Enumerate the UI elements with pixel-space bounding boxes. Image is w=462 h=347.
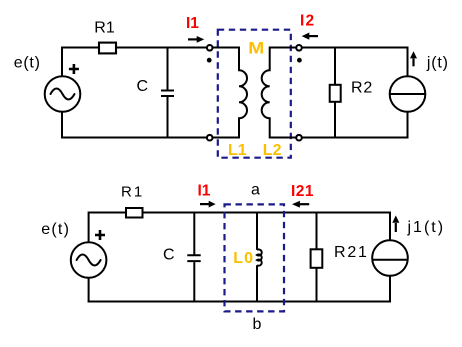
plus sign of e(t) <box>69 64 79 74</box>
resistor R2 branch lower wire <box>334 102 336 139</box>
wire R1 to j1(t) top (through all junctions) <box>143 212 391 214</box>
current source j1(t) lower wire <box>389 276 391 303</box>
resistor R1 <box>126 208 143 218</box>
current source j(t) circle <box>390 76 426 112</box>
current source j1(t) upper wire <box>389 212 391 241</box>
wire top-left horizontal (source to R1) <box>62 47 98 49</box>
resistor R21 <box>311 249 323 267</box>
polarity dot left <box>207 58 212 63</box>
voltage source e(t) sine wave <box>77 255 101 266</box>
wire right terminal to j(t) top <box>302 47 409 49</box>
capacitor C plates <box>161 91 174 97</box>
wire bottom horizontal <box>88 301 390 303</box>
current arrow I21 <box>297 203 309 205</box>
voltage source e(t) sine wave <box>51 89 75 100</box>
capacitor C bottom connection wire <box>193 262 195 301</box>
svg-text:L1: L1 <box>228 142 247 159</box>
secondary winding L2 (wire + coil) <box>262 48 297 138</box>
terminal node top-left <box>207 45 213 51</box>
wire bottom-left horizontal <box>61 137 206 139</box>
svg-text:b: b <box>253 316 262 333</box>
current arrow I1 <box>200 203 210 205</box>
svg-text:j(t): j(t) <box>426 55 449 72</box>
label M (gold) <box>248 39 264 58</box>
wire left vertical lower stub <box>88 278 90 303</box>
voltage source e(t) circle <box>45 76 81 112</box>
capacitor C bottom plate connection wire <box>167 97 169 138</box>
current arrow I1 <box>188 38 198 40</box>
resistor R21 branch lower wire <box>316 268 318 303</box>
inductor L0 lower wire <box>256 265 258 301</box>
wire left vertical upper stub <box>88 212 90 243</box>
capacitor C top connection wire <box>193 213 195 255</box>
svg-text:R2: R2 <box>351 80 373 97</box>
svg-text:a: a <box>251 181 260 198</box>
terminal node bottom-left <box>207 135 213 141</box>
wire top-left horizontal (source to R1) <box>89 212 125 214</box>
svg-text:R21: R21 <box>334 244 369 261</box>
svg-text:C: C <box>137 78 149 95</box>
svg-text:I1: I1 <box>186 15 199 32</box>
resistor R21 branch upper wire <box>316 212 318 250</box>
capacitor C plates <box>187 255 200 261</box>
svg-text:C: C <box>163 247 175 264</box>
resistor R2 branch upper wire <box>334 47 336 85</box>
plus sign of e(t) <box>95 230 105 240</box>
inductor L0 coil <box>257 249 262 265</box>
dashed coupling box (transformer) <box>218 30 291 158</box>
wire left vertical upper stub <box>61 47 63 77</box>
svg-text:I2: I2 <box>300 13 315 30</box>
resistor R2 <box>330 85 341 102</box>
current source j1(t) circle <box>372 240 408 276</box>
svg-text:L0: L0 <box>233 250 254 267</box>
current arrow I2 <box>307 35 318 37</box>
resistor R1 <box>99 43 116 54</box>
svg-text:I21: I21 <box>291 183 314 200</box>
terminal node top-right <box>296 45 302 51</box>
current source j(t) upper wire <box>407 47 409 77</box>
wire R1 to left transformer terminal <box>117 47 206 49</box>
svg-text:R1: R1 <box>121 184 144 201</box>
current arrow of j(t) <box>412 59 414 67</box>
svg-text:e(t): e(t) <box>14 55 41 72</box>
current source j(t) lower wire <box>407 112 409 139</box>
primary winding L1 (wire + coil) <box>212 48 247 138</box>
terminal node bottom-right <box>296 135 302 141</box>
svg-text:M: M <box>248 39 264 58</box>
dashed box around L0 <box>225 204 285 311</box>
voltage source e(t) circle <box>71 242 107 278</box>
current source j(t) bar <box>390 93 426 95</box>
svg-text:j1(t): j1(t) <box>407 219 446 236</box>
inductor L0 upper wire <box>256 213 258 250</box>
polarity dot right <box>297 58 302 63</box>
svg-text:e(t): e(t) <box>41 221 70 238</box>
current source j1(t) bar <box>372 259 407 261</box>
svg-text:R1: R1 <box>94 19 115 36</box>
svg-text:I1: I1 <box>198 182 211 199</box>
wire left vertical lower stub <box>61 112 63 139</box>
wire bottom right horizontal <box>302 137 409 139</box>
capacitor C top plate connection wire <box>167 48 169 90</box>
svg-text:L2: L2 <box>263 142 282 159</box>
current arrow of j1(t) <box>395 223 397 232</box>
